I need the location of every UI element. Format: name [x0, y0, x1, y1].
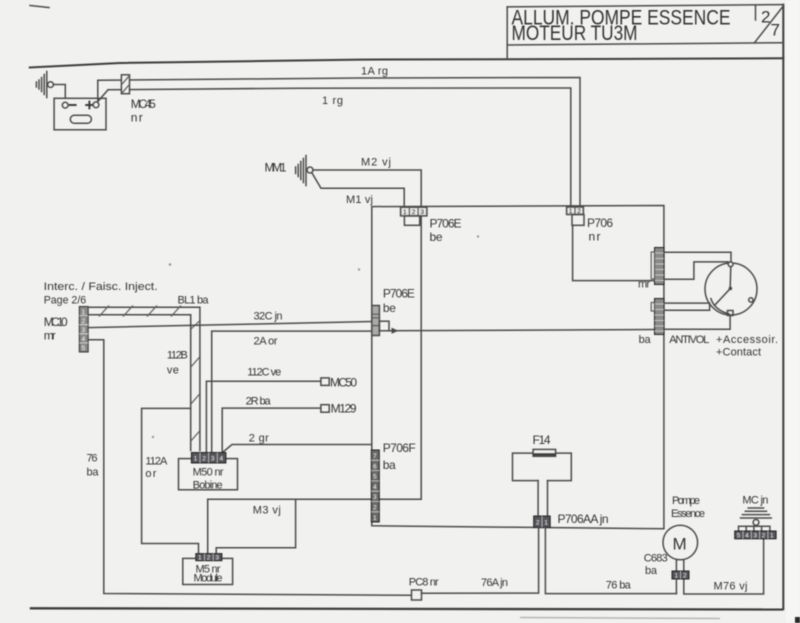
- connector PC8: [409, 577, 439, 601]
- svg-text:4: 4: [82, 336, 86, 343]
- wire M3 vj: [208, 499, 422, 553]
- ground MC jn: [739, 495, 772, 532]
- svg-text:3: 3: [82, 327, 86, 334]
- wire M76 vj: [684, 539, 764, 594]
- svg-text:2R ba: 2R ba: [246, 396, 272, 408]
- svg-text:3: 3: [373, 494, 377, 501]
- connector MC (5 pins): [735, 531, 776, 540]
- antivol wires to switch: [664, 252, 733, 329]
- svg-text:P706: P706: [587, 216, 613, 230]
- border frame top: [30, 6, 783, 68]
- label 112B ve: [167, 350, 188, 377]
- svg-text:M3 vj: M3 vj: [253, 505, 281, 517]
- wire 2 gr: [223, 433, 372, 453]
- svg-text:3: 3: [211, 456, 215, 463]
- svg-text:6: 6: [373, 463, 377, 470]
- battery ground: [36, 72, 53, 98]
- svg-text:Interc. / Faisc. Inject.: Interc. / Faisc. Inject.: [44, 281, 158, 293]
- svg-text:2: 2: [373, 505, 377, 512]
- internal wire to antivol ba (arrow): [389, 328, 655, 334]
- svg-text:M76 vj: M76 vj: [714, 581, 748, 593]
- connector P706 (top right): [567, 207, 614, 244]
- svg-text:1: 1: [82, 309, 86, 316]
- svg-text:M129: M129: [331, 402, 357, 416]
- coil M50: [179, 453, 238, 492]
- svg-text:BL1 ba: BL1 ba: [178, 295, 210, 307]
- ECU box outline: [372, 206, 664, 529]
- svg-text:2: 2: [412, 209, 416, 216]
- svg-text:32C jn: 32C jn: [254, 311, 283, 323]
- svg-text:PC8 nr: PC8 nr: [409, 577, 439, 589]
- svg-text:2: 2: [683, 573, 687, 580]
- svg-text:76 ba: 76 ba: [606, 580, 632, 592]
- connector M129: [321, 402, 357, 416]
- wire BL1 ba shielded band: [88, 295, 209, 451]
- svg-text:Module: Module: [194, 573, 223, 585]
- wire M1 vj: [312, 173, 404, 208]
- wire 112C ve: [206, 367, 321, 453]
- svg-text:ba: ba: [87, 467, 100, 479]
- ignition switch ANTIVOL: [669, 262, 778, 359]
- battery B1: [54, 98, 106, 130]
- svg-text:M50 nr: M50 nr: [193, 467, 224, 479]
- svg-text:be: be: [383, 301, 396, 315]
- svg-text:1: 1: [770, 533, 774, 540]
- ground MM1: [265, 156, 314, 186]
- wire 32C jn: [88, 311, 372, 328]
- connector MC45: [121, 75, 156, 125]
- wire 1 rg: [108, 88, 571, 207]
- svg-text:MC jn: MC jn: [742, 495, 768, 507]
- svg-text:ba: ba: [383, 458, 396, 472]
- svg-text:M: M: [673, 535, 687, 554]
- connector P706E (top): [401, 207, 462, 244]
- svg-text:ba: ba: [645, 565, 658, 577]
- svg-text:be: be: [430, 230, 443, 244]
- connector P706F: [371, 441, 415, 522]
- svg-text:MC10: MC10: [44, 315, 68, 329]
- svg-text:2A or: 2A or: [254, 336, 278, 348]
- svg-text:+Contact: +Contact: [716, 347, 761, 359]
- svg-text:MC50: MC50: [330, 376, 357, 390]
- svg-text:1: 1: [373, 515, 377, 522]
- wire 112A or: [142, 408, 199, 553]
- svg-text:1: 1: [198, 555, 202, 562]
- svg-text:5: 5: [737, 533, 741, 540]
- svg-text:2: 2: [202, 456, 206, 463]
- svg-text:MC45: MC45: [131, 97, 156, 111]
- svg-text:7: 7: [771, 21, 780, 40]
- wire M2 vj: [313, 157, 421, 208]
- fuse F14: [513, 433, 572, 517]
- wire 2R ba: [222, 396, 321, 453]
- svg-text:Essence: Essence: [671, 508, 705, 520]
- title block: [507, 5, 783, 60]
- fuel pump motor: [663, 495, 705, 571]
- svg-text:mr: mr: [638, 279, 650, 291]
- wire 76A jn: [422, 528, 539, 594]
- internal wire P706E pin2 down: [420, 216, 422, 499]
- svg-text:7: 7: [373, 453, 377, 460]
- svg-text:1: 1: [544, 520, 548, 527]
- svg-text:1A rg: 1A rg: [361, 66, 388, 78]
- antivol wire from P706: [573, 225, 655, 280]
- svg-text:Pompe: Pompe: [672, 495, 700, 507]
- svg-text:ve: ve: [167, 365, 179, 377]
- connector P706E (middle left): [372, 287, 415, 336]
- svg-text:MM1: MM1: [265, 161, 287, 175]
- svg-text:2: 2: [762, 533, 766, 540]
- svg-text:Bobine: Bobine: [193, 480, 223, 492]
- svg-text:2: 2: [82, 318, 86, 325]
- svg-text:4: 4: [220, 456, 224, 463]
- connector ba (antivol): [639, 299, 664, 347]
- svg-text:2 gr: 2 gr: [249, 433, 269, 445]
- svg-text:P706E: P706E: [430, 217, 462, 231]
- svg-text:F14: F14: [533, 433, 551, 447]
- svg-text:112B: 112B: [167, 350, 188, 362]
- svg-text:3: 3: [753, 533, 757, 540]
- svg-text:4: 4: [745, 533, 749, 540]
- wire 76 ba (bottom): [545, 528, 676, 594]
- border frame bottom: [30, 608, 783, 609]
- svg-text:76: 76: [87, 453, 98, 465]
- svg-text:nr: nr: [589, 230, 601, 244]
- wire 2A or: [212, 331, 372, 452]
- svg-text:3: 3: [215, 555, 219, 562]
- svg-text:MOTEUR TU3M: MOTEUR TU3M: [512, 22, 638, 45]
- wire ground to battery: [53, 85, 65, 99]
- wire battery plus to 1 rg: [98, 90, 108, 102]
- wire 76 ba (left drop): [87, 340, 412, 596]
- svg-text:3: 3: [420, 209, 424, 216]
- svg-text:76A jn: 76A jn: [481, 577, 508, 589]
- svg-text:ba: ba: [639, 334, 652, 346]
- svg-text:2: 2: [207, 555, 211, 562]
- svg-text:M2 vj: M2 vj: [361, 157, 391, 169]
- svg-text:P706E: P706E: [383, 287, 415, 301]
- svg-text:2: 2: [536, 520, 540, 527]
- svg-text:M1 vj: M1 vj: [346, 194, 373, 206]
- svg-text:2: 2: [761, 8, 770, 27]
- svg-text:mr: mr: [44, 329, 56, 343]
- svg-text:5: 5: [82, 345, 86, 352]
- svg-text:Page 2/6: Page 2/6: [44, 295, 86, 307]
- connector mr (antivol): [638, 248, 664, 291]
- svg-text:112C ve: 112C ve: [247, 367, 281, 379]
- svg-text:1: 1: [403, 209, 407, 216]
- connector C683: [644, 553, 689, 594]
- connector MC50: [321, 376, 357, 390]
- svg-text:nr: nr: [131, 111, 143, 125]
- svg-text:P706F: P706F: [383, 441, 416, 455]
- svg-text:4: 4: [373, 484, 377, 491]
- svg-text:C683: C683: [644, 553, 668, 565]
- wire 1A rg: [98, 66, 580, 208]
- svg-text:1 rg: 1 rg: [322, 95, 343, 107]
- border frame right: [782, 5, 784, 610]
- connector P706AA: [534, 512, 609, 528]
- svg-text:+Accessoir.: +Accessoir.: [716, 334, 778, 346]
- wire battery plus to 1A rg: [97, 81, 99, 101]
- connector MC10: [44, 281, 158, 352]
- svg-text:112A: 112A: [145, 456, 168, 468]
- svg-text:or: or: [145, 468, 156, 480]
- svg-text:ANTIVOL: ANTIVOL: [669, 334, 709, 346]
- svg-text:5: 5: [373, 474, 377, 481]
- scan artifacts: [152, 235, 800, 623]
- module M5: [183, 554, 233, 585]
- svg-text:1: 1: [194, 456, 198, 463]
- svg-text:P706AA jn: P706AA jn: [558, 512, 609, 526]
